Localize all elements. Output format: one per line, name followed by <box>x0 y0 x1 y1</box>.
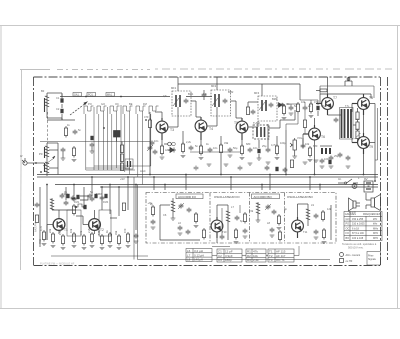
transistor T4 <box>195 117 207 140</box>
svg-text:1Ω: 1Ω <box>355 127 358 131</box>
wire: agc net <box>280 100 318 134</box>
switch contact S1c <box>110 106 120 114</box>
svg-text:5n: 5n <box>195 144 198 148</box>
trimmer CV2 <box>178 203 184 209</box>
ground G25 <box>314 160 319 162</box>
emitter resistor bars <box>320 146 332 154</box>
resistor R37 <box>321 210 324 222</box>
bias box around T2 network <box>99 210 111 236</box>
resistor R36 <box>278 230 281 242</box>
thermistor TH1 <box>355 131 361 139</box>
resistor R22 <box>51 232 56 248</box>
capacitor C61 <box>220 235 225 240</box>
trimmer C1 <box>60 94 63 103</box>
table TB1 <box>186 249 212 262</box>
svg-text:AA119: AA119 <box>165 148 173 152</box>
svg-text:C2: C2 <box>56 107 60 111</box>
svg-text:OSCILLATEUR FO: OSCILLATEUR FO <box>214 195 240 199</box>
diode D3 <box>164 142 175 146</box>
svg-text:6 à 18: 6 à 18 <box>352 227 360 230</box>
wire: osc bo <box>298 204 332 240</box>
svg-text:10n: 10n <box>253 146 258 150</box>
resistor R26 <box>90 232 95 248</box>
svg-text:510 à 1605: 510 à 1605 <box>352 223 365 226</box>
svg-text:T9: T9 <box>369 145 373 149</box>
right column wires <box>375 108 378 160</box>
transistor T3 <box>156 118 168 140</box>
svg-text:47k: 47k <box>314 100 319 104</box>
svg-text:680: 680 <box>246 142 251 146</box>
svg-text:T.AN: T.AN <box>253 121 260 125</box>
svg-text:ACCORD BO: ACCORD BO <box>254 195 273 199</box>
trimmer C50 <box>147 145 157 155</box>
capacitor C52 <box>238 166 243 171</box>
switch contact S1d <box>123 106 133 114</box>
resistor R13 <box>308 146 313 162</box>
svg-text:T3: T3 <box>269 258 273 262</box>
wire: mid verticals <box>150 112 286 175</box>
output transformer T.S <box>340 108 354 140</box>
capacitor C34 <box>314 230 319 240</box>
capacitor C33 <box>314 214 319 219</box>
resistor R7 <box>181 142 186 158</box>
svg-text:ANT.FM: ANT.FM <box>34 223 38 232</box>
capacitor C9 <box>208 148 213 153</box>
speaker HP <box>366 195 380 211</box>
resistor R31 <box>194 212 199 228</box>
antenna connector left margin <box>22 158 34 165</box>
svg-text:BM3: BM3 <box>272 97 278 101</box>
svg-text:BM2: BM2 <box>228 90 234 94</box>
resistor ladder R15 <box>356 122 359 130</box>
capacitor C31 <box>272 210 277 215</box>
table TB1 text <box>187 249 204 262</box>
FM osc coil L7 <box>226 205 230 228</box>
svg-text:GA1: GA1 <box>74 94 79 97</box>
svg-text:PO1: PO1 <box>88 94 93 97</box>
svg-text:2n: 2n <box>308 104 311 108</box>
capacitor C32 <box>270 228 275 238</box>
wire: T1 T2 links <box>47 210 117 240</box>
node dot left <box>35 162 42 173</box>
resistor R50 <box>151 205 154 217</box>
svg-text:PO: PO <box>346 223 350 226</box>
capacitor C24 <box>134 234 139 244</box>
wire: top feeds <box>178 77 328 100</box>
svg-text:150 à 255: 150 à 255 <box>352 218 364 221</box>
svg-text:MF3: MF3 <box>254 91 260 95</box>
capacitor C3 <box>73 130 78 135</box>
trimmer CV3 <box>265 204 271 210</box>
svg-text:C1: C1 <box>56 96 60 100</box>
node dots <box>85 96 147 129</box>
svg-text:22k: 22k <box>48 228 52 233</box>
ground G24 <box>303 162 308 164</box>
svg-text:OSCILLATEUR BO: OSCILLATEUR BO <box>287 195 313 199</box>
svg-text:+9V: +9V <box>120 177 125 181</box>
wire: between tables <box>212 246 299 256</box>
svg-text:0,5: 0,5 <box>203 92 207 96</box>
svg-text:140µH: 140µH <box>194 258 203 262</box>
svg-text:kHz: kHz <box>373 218 378 221</box>
svg-text:1k: 1k <box>206 142 209 146</box>
transistor T7 <box>316 94 333 115</box>
resistor R27 <box>100 234 105 250</box>
resistor R29 <box>117 234 122 250</box>
capacitor C47 <box>329 156 334 161</box>
svg-text:MF1: MF1 <box>171 86 177 90</box>
electrolytic C23 <box>83 205 86 209</box>
IF transformer MF2 (box) <box>211 90 231 116</box>
ground G27 <box>346 166 351 168</box>
driver transformer T.AN <box>253 125 269 139</box>
svg-text:2,2k: 2,2k <box>186 140 192 144</box>
capacitor C30 <box>243 229 248 239</box>
svg-text:L6: L6 <box>178 221 181 225</box>
coil L5 <box>50 198 54 210</box>
capacitor C17 <box>346 156 351 161</box>
table TB2 <box>217 249 242 262</box>
table TB3 <box>246 249 266 262</box>
capacitor C20 <box>64 201 69 206</box>
svg-text:B0: B0 <box>41 89 45 93</box>
svg-text:Signale: Signale <box>368 258 377 261</box>
svg-text:L8: L8 <box>187 258 191 262</box>
transistor T2 <box>83 215 100 234</box>
switch contact S1e <box>136 106 146 114</box>
transistor TF1 <box>211 217 223 238</box>
wire: osc fo <box>217 205 228 243</box>
wire: osc fo extra <box>222 205 240 235</box>
svg-text:2,2k: 2,2k <box>87 227 91 233</box>
freq table text <box>345 213 381 240</box>
inter-stage capacitor C60 <box>202 93 207 98</box>
pre-detector parts R61 <box>246 107 255 115</box>
svg-text:W: W <box>20 154 23 158</box>
svg-text:GO: GO <box>101 102 105 106</box>
tuning gang CV1 link <box>70 102 87 115</box>
left border small parts <box>35 203 40 223</box>
svg-text:L7: L7 <box>231 205 234 209</box>
resistor ladder R14 <box>356 112 359 120</box>
transistor TF2 <box>292 217 304 238</box>
diode D1 <box>168 148 176 153</box>
svg-text:P0: P0 <box>39 152 43 156</box>
table TB4 text <box>269 250 286 263</box>
svg-text:2,2k: 2,2k <box>253 258 259 262</box>
svg-text:100µ: 100µ <box>324 157 330 161</box>
svg-text:BE: BE <box>129 102 133 106</box>
wire: top RF bus <box>60 96 170 98</box>
label ACCORD BO <box>252 194 280 199</box>
svg-text:75Ω: 75Ω <box>38 239 42 244</box>
svg-text:Alim. courant: Alim. courant <box>346 254 361 257</box>
capacitor row C40 <box>60 194 76 201</box>
svg-text:T1: T1 <box>64 228 68 232</box>
legend circle <box>340 253 361 258</box>
svg-text:33k: 33k <box>114 230 118 235</box>
ferrite coil L3 <box>45 161 50 176</box>
svg-text:180p: 180p <box>225 258 232 262</box>
resistor R23 <box>61 234 66 250</box>
ground G22 <box>248 163 253 165</box>
tuning slug arrow <box>43 156 55 166</box>
ground G21 <box>224 164 229 166</box>
osc box B2 <box>125 159 133 169</box>
wire: bundle horizontals to FM <box>86 166 151 170</box>
scattered value labels <box>41 84 360 234</box>
svg-text:PLATINE FM — MODULE HF: PLATINE FM — MODULE HF <box>40 262 75 266</box>
resistor R38 <box>322 228 327 244</box>
capacitor C28 <box>186 230 191 235</box>
table TB2 text <box>218 250 233 263</box>
transistor T1 <box>47 215 65 234</box>
resistor R5 <box>148 118 151 130</box>
band label box GA1 <box>73 93 82 97</box>
svg-text:25µ: 25µ <box>262 144 267 148</box>
svg-text:MA1: MA1 <box>107 94 113 97</box>
svg-text:FM1: FM1 <box>74 200 80 204</box>
svg-text:T11: T11 <box>303 230 308 234</box>
svg-text:L9: L9 <box>311 203 314 207</box>
switch FM2 contact <box>80 196 88 205</box>
svg-text:MHz: MHz <box>373 227 379 230</box>
svg-text:6p: 6p <box>240 219 243 223</box>
resistor R45 <box>316 89 327 92</box>
svg-text:50µ: 50µ <box>233 146 238 150</box>
svg-text:ACCORD FO: ACCORD FO <box>178 195 197 199</box>
electrolytic C57 <box>104 194 107 198</box>
capacitor C42 <box>289 106 294 116</box>
coil tap wires <box>34 143 58 175</box>
IF transformer MF3 / detector (box) <box>258 96 277 121</box>
table TB3 text <box>247 250 259 263</box>
resistor R32 <box>202 228 205 240</box>
svg-text:1,5k: 1,5k <box>58 229 62 235</box>
electrolytic C44 <box>316 106 319 116</box>
capacitor C14 <box>301 138 306 149</box>
wire: fm right verticals <box>134 177 330 260</box>
svg-text:GAMMES: GAMMES <box>345 213 356 216</box>
svg-text:AGC: AGC <box>140 169 146 173</box>
svg-text:100 à 108: 100 à 108 <box>352 237 364 240</box>
long supply bus D <box>100 186 378 188</box>
svg-text:FM: FM <box>143 102 147 106</box>
pilot lamp <box>352 184 357 189</box>
switch FM1 contacts <box>74 204 86 208</box>
svg-text:PO: PO <box>88 102 92 106</box>
svg-text:12k: 12k <box>327 207 332 211</box>
svg-text:T3: T3 <box>170 128 174 132</box>
resistor R21 <box>42 230 47 246</box>
volume potentiometer P1 <box>290 138 297 158</box>
svg-text:50µ: 50µ <box>321 104 326 108</box>
capacitor row C41 <box>88 194 105 201</box>
ferrite rod dashed link <box>47 112 49 143</box>
svg-text:OC: OC <box>346 227 350 230</box>
ferrite coil L2 <box>45 145 50 161</box>
resistor R11 <box>275 144 280 160</box>
capacitor C13 <box>266 148 271 153</box>
MAIN INK <box>20 77 382 266</box>
svg-text:1Ω: 1Ω <box>355 117 358 121</box>
svg-text:C3: C3 <box>218 258 222 262</box>
capacitor C27 <box>178 226 183 236</box>
extra small marks row <box>194 160 351 171</box>
jack J1 on top border <box>348 77 350 81</box>
capacitor C8 <box>189 146 194 151</box>
switch contact S1b <box>97 106 107 114</box>
switch contact S1a <box>84 106 94 114</box>
capacitor C15 <box>334 118 339 123</box>
capacitor C16 <box>338 153 343 158</box>
long mid wire <box>40 142 240 153</box>
svg-text:BM1: BM1 <box>188 92 194 96</box>
wire: bundle verticals <box>94 105 121 170</box>
transistor T5 <box>236 118 248 140</box>
wire: switch drops <box>86 111 151 185</box>
switch Int. <box>338 179 358 184</box>
capacitor C11 <box>248 148 253 153</box>
svg-text:VOL: VOL <box>297 136 303 140</box>
BO osc coil L9 <box>306 204 310 226</box>
svg-text:R3: R3 <box>247 258 251 262</box>
bias box around T1 network <box>67 210 81 236</box>
junction dots buses <box>46 174 376 188</box>
svg-text:8p: 8p <box>284 207 287 211</box>
resistor R9 <box>219 143 222 155</box>
wire: IF chain <box>155 101 258 127</box>
wire: right column <box>369 104 375 182</box>
resistor R28 <box>108 232 113 248</box>
ground G23 <box>266 162 271 164</box>
svg-text:10n: 10n <box>154 139 159 143</box>
resistor R40 <box>282 104 287 120</box>
resistor R41 <box>296 102 299 114</box>
IF transformer MF1 (box) <box>172 91 191 116</box>
left margin vertical labels <box>34 223 43 244</box>
svg-text:10k: 10k <box>69 228 73 233</box>
svg-text:10n: 10n <box>213 146 218 150</box>
svg-text:kHz: kHz <box>373 223 378 226</box>
capacitor C55 <box>151 220 156 230</box>
FM module frame <box>146 193 336 244</box>
svg-text:OC: OC <box>115 102 119 106</box>
svg-text:ou HF: ou HF <box>346 260 353 263</box>
capacitor C22 <box>90 197 95 202</box>
svg-text:T4: T4 <box>209 127 213 131</box>
svg-text:C6: C6 <box>163 213 167 217</box>
wire: output stage <box>320 82 371 175</box>
svg-text:5n: 5n <box>78 128 81 132</box>
label ACCORD FO <box>176 194 203 199</box>
speaker HS internal <box>349 198 361 211</box>
electrolytic C12 <box>257 149 262 160</box>
capacitor C29 <box>235 216 240 221</box>
osc coil block B1 <box>114 131 121 142</box>
freq table frame <box>344 212 382 241</box>
BO coil L8 <box>256 202 261 222</box>
capacitor C26 <box>187 208 192 213</box>
jack PU fork <box>345 78 352 86</box>
capacitor C51 <box>194 166 199 171</box>
resistor R24 <box>72 232 77 248</box>
antenna coil L1 <box>45 93 50 118</box>
resistor R35 <box>277 214 282 230</box>
legend box <box>367 252 381 266</box>
svg-text:87,5 à 100: 87,5 à 100 <box>352 232 364 235</box>
bus hanging caps C45 <box>265 166 288 173</box>
capacitor C7 <box>150 141 155 146</box>
resistor R2 <box>72 146 75 158</box>
capacitor C10 <box>228 148 233 158</box>
note under table <box>342 242 377 250</box>
svg-text:FREQUENCES: FREQUENCES <box>363 213 381 216</box>
svg-text:FM4: FM4 <box>103 200 109 204</box>
svg-text:MF2: MF2 <box>211 84 217 88</box>
svg-text:Int.: Int. <box>338 177 342 181</box>
capacitor C21 <box>72 197 77 202</box>
legend square <box>340 259 353 264</box>
svg-text:T10: T10 <box>222 230 227 234</box>
svg-text:L8: L8 <box>267 221 270 225</box>
switch contact S1f <box>149 106 159 114</box>
svg-text:10k: 10k <box>305 142 310 146</box>
svg-text:1k: 1k <box>67 123 70 127</box>
svg-text:FO: FO <box>346 232 350 235</box>
resistor R30 <box>126 232 131 248</box>
transistor T9 <box>352 133 369 154</box>
svg-text:T.S.: T.S. <box>345 104 350 108</box>
battery 9V <box>364 181 373 192</box>
padder stack C49 <box>120 142 123 171</box>
electrolytic C18 <box>328 160 331 164</box>
svg-text:GO: GO <box>346 218 350 221</box>
resistor R10 <box>240 144 245 160</box>
electrolytic C48 <box>90 136 95 153</box>
wire: fm box feeds <box>154 175 320 191</box>
ground rail lower-left <box>51 255 148 257</box>
ground G2 <box>72 160 77 162</box>
svg-text:5p: 5p <box>90 190 93 194</box>
svg-text:4,7k: 4,7k <box>39 225 43 231</box>
transistor T8 <box>352 94 369 115</box>
svg-text:9V: 9V <box>364 177 368 181</box>
svg-text:OC 71: OC 71 <box>276 258 285 262</box>
resistor R34 <box>234 228 239 244</box>
wire: speaker feed <box>353 125 366 209</box>
band label box MA1 <box>106 93 115 97</box>
ground G20 <box>207 164 212 166</box>
capacitor C46 <box>320 159 325 169</box>
ground G1 <box>61 158 66 160</box>
svg-text:33k: 33k <box>224 141 229 145</box>
band label box PO1 <box>87 93 96 97</box>
wire: FM verticals from bus <box>40 177 136 247</box>
svg-text:Tensions au volt. spéciales à: Tensions au volt. spéciales à <box>342 242 377 246</box>
svg-text:BO: BO <box>346 237 350 240</box>
svg-text:MHz: MHz <box>373 232 379 235</box>
ground G26 <box>329 166 334 168</box>
resistor R8 <box>199 144 204 160</box>
wire: left input <box>47 93 75 120</box>
main dash-dot frame <box>34 77 388 266</box>
FM coil L6 <box>171 200 176 220</box>
trimmer C2 <box>60 104 63 120</box>
resistor R1 <box>64 126 67 138</box>
resistor R20 <box>72 204 75 216</box>
svg-text:T7: T7 <box>333 96 337 100</box>
